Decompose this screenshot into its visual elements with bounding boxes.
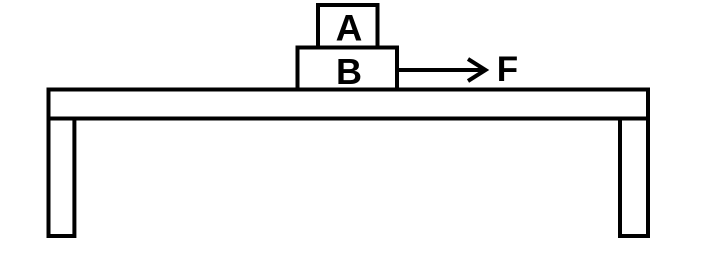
svg-text:A: A [336,8,363,49]
svg-text:F: F [497,50,518,89]
svg-text:B: B [336,51,362,92]
